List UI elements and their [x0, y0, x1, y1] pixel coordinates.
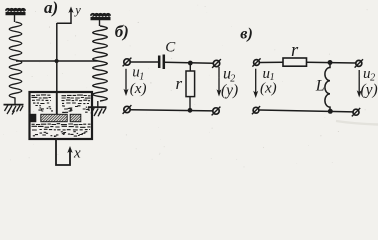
- svg-text:а): а): [44, 0, 58, 17]
- damper cylinder: [30, 92, 93, 139]
- inductor L: [325, 63, 330, 112]
- resistor r vertical: [186, 63, 195, 110]
- svg-text:C: C: [165, 39, 176, 55]
- y-axis arrow: [57, 7, 74, 24]
- svg-text:x: x: [73, 146, 81, 162]
- damper fluid upper: [32, 95, 91, 113]
- terminal b top-left: [123, 58, 132, 67]
- svg-text:(x): (x): [130, 81, 147, 97]
- svg-text:б): б): [115, 22, 129, 41]
- junction rod-crossbar: [55, 59, 59, 63]
- support wall top-right: [91, 14, 111, 19]
- wire b top-left: [131, 61, 159, 63]
- node v top: [328, 60, 333, 65]
- damper fluid lower: [32, 124, 91, 137]
- scan smudge bottom-right: [336, 121, 378, 125]
- svg-text:r: r: [291, 41, 299, 61]
- support wall bottom-right: [88, 107, 107, 116]
- terminal v top-right: [355, 59, 363, 67]
- terminal v bottom-left: [252, 106, 260, 114]
- damper piston: [31, 114, 81, 121]
- svg-text:в): в): [240, 26, 252, 43]
- node b top: [188, 61, 193, 66]
- svg-text:(y): (y): [221, 82, 238, 99]
- u1 arrow (v): [253, 69, 258, 98]
- wire v top-left: [260, 61, 283, 63]
- wire v bottom: [259, 110, 353, 112]
- paper noise: [3, 5, 367, 168]
- u2 arrow (v): [357, 70, 362, 98]
- wire b top-right: [165, 62, 214, 63]
- terminal b top-right: [212, 59, 221, 68]
- support wall top-left: [6, 9, 26, 14]
- terminal b bottom-right: [212, 107, 221, 116]
- spring right: [93, 20, 108, 108]
- svg-text:L: L: [315, 78, 325, 95]
- node b bottom: [188, 108, 193, 113]
- svg-text:y: y: [73, 3, 81, 17]
- wire v top-right: [307, 61, 356, 64]
- terminal b bottom-left: [123, 105, 132, 114]
- x linkage: [56, 140, 70, 166]
- resistor r horizontal: [283, 58, 307, 66]
- capacitor C: [159, 55, 164, 70]
- terminal v top-left: [252, 58, 260, 66]
- svg-text:(x): (x): [260, 81, 277, 97]
- x arrow head: [67, 146, 72, 153]
- wire b bottom: [130, 110, 212, 111]
- rod: [56, 23, 58, 92]
- svg-text:(y): (y): [361, 81, 378, 98]
- svg-text:r: r: [176, 74, 183, 93]
- node v bottom: [328, 109, 333, 114]
- terminal v bottom-right: [352, 108, 360, 116]
- u2 arrow (b): [217, 67, 222, 97]
- u1 arrow (b): [124, 69, 129, 96]
- crossbar: [16, 60, 98, 62]
- support wall bottom-left: [4, 105, 24, 115]
- spring left: [9, 15, 22, 105]
